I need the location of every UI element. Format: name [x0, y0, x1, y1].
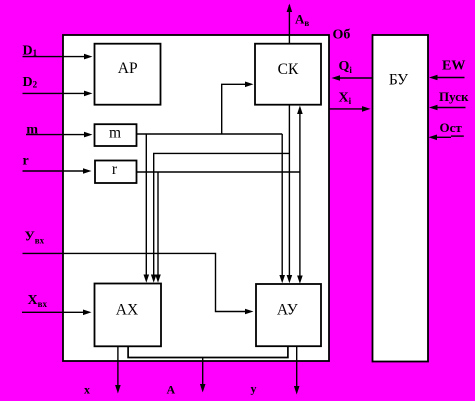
- block АУ: [256, 284, 321, 346]
- svg-text:m: m: [109, 125, 121, 142]
- wire Увх to АУ: [23, 253, 247, 311]
- block БУ: [373, 35, 429, 362]
- block АР: [95, 44, 161, 105]
- svg-text:Ост: Ост: [440, 120, 463, 135]
- wire СК branch left: [154, 153, 290, 276]
- wire r branch down to АХ: [157, 172, 159, 277]
- svg-text:х: х: [84, 383, 90, 397]
- svg-text:СК: СК: [278, 61, 299, 78]
- wire Хвх input: [22, 311, 84, 313]
- wire Ост into БУ: [436, 136, 451, 138]
- wire m branch up to СК: [222, 84, 247, 134]
- wire СК bus down to АУ: [288, 105, 290, 277]
- wire Q from БУ to frame: [339, 77, 373, 79]
- svg-text:r: r: [23, 154, 29, 169]
- wire m bus drop to АУ: [281, 134, 283, 277]
- svg-text:АУ: АУ: [277, 302, 298, 319]
- svg-text:Пуск: Пуск: [439, 89, 469, 104]
- svg-text:А: А: [167, 383, 176, 397]
- wire Хi to БУ: [329, 108, 363, 110]
- wire A bus: [128, 346, 288, 357]
- svg-text:Об: Об: [333, 27, 351, 42]
- block m: [95, 124, 137, 146]
- wire A output: [202, 358, 204, 386]
- wire m input: [26, 134, 85, 136]
- svg-text:АР: АР: [118, 60, 138, 77]
- wire D1 input: [23, 56, 86, 58]
- svg-text:АХ: АХ: [116, 302, 138, 319]
- svg-text:r: r: [112, 161, 118, 178]
- svg-text:БУ: БУ: [389, 72, 408, 89]
- wire r input: [23, 170, 85, 172]
- wire r bus down to АУ: [299, 172, 301, 278]
- outer block frame: [63, 35, 329, 361]
- block СК: [255, 44, 321, 105]
- wire D2 input: [23, 92, 86, 94]
- wire r bus up into СК: [299, 112, 301, 173]
- block r: [95, 161, 137, 184]
- wire Ав output up from СК: [288, 5, 290, 44]
- wire x output: [117, 346, 119, 386]
- wire Пуск into БУ: [437, 107, 466, 109]
- svg-text:у: у: [251, 382, 257, 396]
- wire y output: [296, 346, 298, 387]
- svg-text:EW: EW: [442, 59, 465, 74]
- block АХ: [95, 284, 162, 347]
- wire EW into БУ: [437, 77, 465, 79]
- wire r bus horizontal: [137, 171, 300, 173]
- wire m branch down to АХ: [145, 134, 147, 277]
- wire m bus horizontal: [137, 133, 283, 135]
